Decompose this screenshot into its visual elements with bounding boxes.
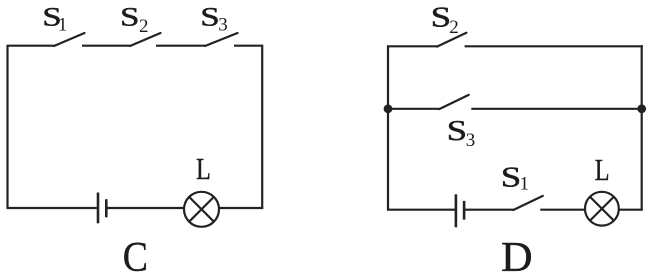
node: left junction dot <box>384 104 393 113</box>
wire: C bottom segment from right corner to lamp <box>219 207 263 209</box>
svg-text:2: 2 <box>139 16 149 37</box>
svg-text:L: L <box>196 151 211 186</box>
node: right junction dot <box>637 104 646 113</box>
svg-text:C: C <box>123 235 148 273</box>
svg-text:S: S <box>431 2 452 34</box>
svg-text:S: S <box>200 1 220 31</box>
wire: C left vertical <box>6 46 8 208</box>
svg-text:1: 1 <box>58 15 68 36</box>
wire: D bottom segment between S1 and lamp <box>540 209 585 211</box>
wire: D right vertical <box>641 45 643 210</box>
wire: C top segment between S1 and S2 <box>82 45 130 47</box>
svg-text:2: 2 <box>449 17 459 38</box>
wire: D top segment from S2 to right corner <box>465 45 643 47</box>
switch S2 (open blade) <box>130 33 161 46</box>
wire: D left vertical <box>387 46 389 209</box>
wire: C bottom segment from battery to left corner <box>7 207 99 209</box>
battery cell of circuit C (long and short plates) <box>98 193 106 224</box>
battery cell of circuit D (long and short plates) <box>456 194 464 227</box>
lamp L of circuit C (circle with cross) <box>184 192 219 227</box>
svg-text:L: L <box>595 152 610 187</box>
svg-text:D: D <box>501 234 533 273</box>
svg-text:S: S <box>501 162 522 194</box>
svg-text:3: 3 <box>466 130 476 151</box>
lamp L of circuit D (circle with cross) <box>585 192 619 226</box>
switch S3 (open blade) <box>439 95 469 109</box>
wire: C right vertical <box>261 45 263 208</box>
svg-text:3: 3 <box>218 15 228 36</box>
switch S1 (open blade) <box>54 33 85 46</box>
wire: C top segment from left corner to switch S1 <box>7 45 55 47</box>
wire: D top segment from left corner to switch S2 <box>387 45 437 47</box>
wire: C top segment from S3 to right corner <box>234 45 262 47</box>
svg-text:S: S <box>447 115 468 147</box>
svg-text:1: 1 <box>520 173 530 194</box>
wire: D middle segment from S3 to right junction <box>471 108 641 110</box>
wire: D bottom segment from lamp to right corner <box>619 209 643 211</box>
wire: D bottom segment between battery and switch S1 <box>464 209 513 211</box>
wire: D bottom segment from left corner to battery <box>387 209 456 211</box>
wire: C top segment between S2 and S3 <box>156 45 205 47</box>
switch S3 (open blade) <box>205 33 238 46</box>
svg-text:S: S <box>120 1 140 31</box>
wire: C bottom segment between lamp and battery <box>106 207 184 209</box>
switch S2 (open blade) <box>437 33 466 47</box>
switch S1 (open blade, circuit D) <box>513 196 543 210</box>
wire: D middle segment from left junction to switch S3 <box>388 108 439 110</box>
